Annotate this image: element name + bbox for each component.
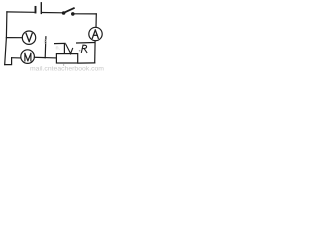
rheostat R slider rod [55, 42, 65, 44]
rheostat R value label (italic R) [81, 45, 86, 52]
switch S left contact dot [62, 11, 66, 15]
wire motor M left lead to hook [12, 57, 21, 59]
voltmeter V circle [22, 31, 35, 44]
rheostat R tap wire to right wire [77, 42, 95, 45]
wire motor M right lead [34, 56, 45, 58]
switch S lever arm [64, 8, 74, 12]
wire rheostat box to M branch junction [45, 57, 56, 59]
rheostat R slider arrow stroke [66, 44, 73, 53]
motor M letter [25, 53, 31, 61]
battery BT tall bar (positive) [40, 3, 42, 14]
wire voltmeter V left lead [6, 37, 22, 39]
svg-text:B: B [44, 40, 48, 46]
wire ammeter to bottom-right corner [94, 41, 96, 63]
svg-text:n.: n. [56, 46, 61, 52]
battery BT short bar (negative) [35, 7, 37, 13]
wire bottom-right corner to rheostat box [78, 62, 95, 64]
switch S right contact dot [71, 12, 75, 16]
svg-text:mail.cnteacherbook.com: mail.cnteacherbook.com [30, 66, 104, 72]
wire left main vertical [5, 12, 7, 65]
wire top-left to battery negative bar [7, 11, 34, 13]
ammeter A circle [89, 27, 102, 40]
voltmeter V letter [26, 33, 32, 41]
wire voltmeter-branch vertical drop [44, 37, 47, 58]
wire hook down to bottom-left corner [5, 58, 12, 65]
ammeter A letter [92, 30, 98, 38]
rheostat R slider vertical contact [63, 44, 65, 53]
wire down to ammeter [95, 14, 97, 28]
wire battery to switch [42, 12, 63, 14]
motor M circle [21, 50, 35, 64]
watermark dot below box [63, 64, 64, 65]
wire switch to top-right corner [75, 13, 97, 15]
rheostat R resistance box [56, 54, 77, 63]
watermark dot near R [79, 50, 81, 52]
